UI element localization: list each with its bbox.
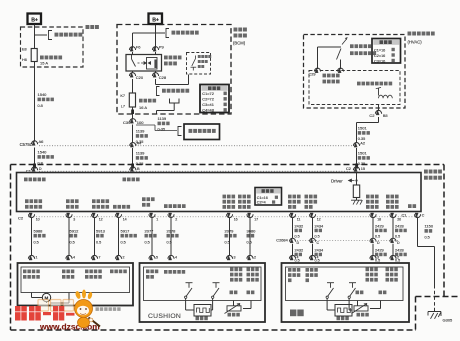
cushion box entry pin 2	[247, 255, 253, 260]
HVAC control unit enclosure (dashed)	[304, 35, 406, 109]
svg-text:2434: 2434	[315, 247, 324, 252]
svg-text:(BCM): (BCM)	[233, 41, 246, 46]
svg-text:A6: A6	[39, 139, 45, 144]
svg-text:H6: H6	[22, 58, 27, 62]
relay coil assembly	[147, 58, 158, 70]
svg-text:11: 11	[297, 217, 301, 221]
label No.2 starter relay	[164, 56, 182, 60]
svg-text:1501: 1501	[358, 151, 368, 156]
svg-text:P9: P9	[159, 45, 165, 50]
svg-text:C4=48: C4=48	[202, 108, 214, 113]
svg-text:L7: L7	[121, 105, 125, 109]
battery feed B+ terminal (left)	[28, 14, 42, 25]
svg-text:Driver: Driver	[331, 179, 343, 184]
svg-text:C1: C1	[402, 213, 407, 217]
svg-text:(HVAC): (HVAC)	[408, 40, 423, 45]
relay terminal C28	[155, 71, 157, 73]
cushion label signal	[230, 291, 238, 295]
label body control module BCM	[234, 28, 247, 32]
power distribution center box	[184, 124, 220, 140]
cushion box entry pin 3	[226, 255, 232, 260]
svg-text:10: 10	[36, 217, 40, 221]
svg-text:www.dzsc.com: www.dzsc.com	[39, 322, 100, 332]
fan box entry pin 4	[66, 255, 72, 260]
label heat pad (backrest)	[337, 317, 349, 321]
svg-text:C39: C39	[123, 120, 131, 125]
svg-text:0.5: 0.5	[295, 235, 300, 239]
svg-text:5: 5	[156, 255, 158, 259]
backrest label heat pad ground	[306, 268, 318, 272]
wire C28 to relay control	[155, 79, 157, 85]
junction blob at module entry	[33, 164, 36, 169]
splice dotted line A6-A4-A2	[39, 145, 352, 147]
seat module enclosure dashed bottom edge	[11, 329, 417, 331]
module bottom pin 14 hook col4	[115, 213, 121, 218]
module pin label col5 heat pad control	[142, 197, 155, 201]
module pin label col12 back temp sensor ground	[386, 195, 399, 199]
relay control switch	[195, 56, 197, 59]
module connector C1 pin D	[31, 167, 37, 172]
svg-text:C1=72: C1=72	[202, 91, 214, 96]
fan label col3 speed control	[85, 270, 102, 274]
label seat heater temperature control switch	[350, 44, 372, 48]
svg-text:0-35: 0-35	[158, 128, 166, 132]
fuse 11 16A	[129, 93, 135, 107]
label temperature control switch signal	[323, 74, 340, 78]
svg-text:0.5: 0.5	[395, 235, 400, 239]
cushion thermistor wires	[233, 301, 235, 306]
cushion thermistor	[227, 306, 241, 311]
svg-text:CUSHION: CUSHION	[148, 313, 181, 320]
svg-text:1540: 1540	[38, 92, 48, 97]
fuse block enclosure (dashed)	[21, 27, 84, 67]
svg-text:C2=72: C2=72	[202, 97, 214, 102]
module bottom pin 3 hook col2	[66, 213, 72, 218]
svg-text:C2684: C2684	[276, 237, 288, 242]
label battery voltage	[24, 178, 46, 182]
svg-text:0.8: 0.8	[38, 104, 43, 108]
module connector dotted line (top)	[39, 170, 350, 172]
wire 1540 RD/WH	[34, 62, 36, 142]
svg-text:16 A: 16 A	[139, 105, 147, 110]
svg-text:1540: 1540	[38, 150, 48, 155]
backrest thermal limit switch 1	[327, 282, 334, 284]
fan box entry pin 2	[115, 255, 121, 260]
wire 1501 to module	[356, 148, 358, 168]
svg-text:F6: F6	[136, 45, 141, 50]
seat fan motor box	[18, 263, 134, 306]
wire 1139 from fuse down	[132, 107, 134, 120]
cushion thermal limit switch 2	[213, 282, 220, 284]
fan box entry pin 7	[91, 255, 97, 260]
relay terminal P9	[152, 47, 158, 52]
wire back sensor signal 2429 upper segment	[372, 218, 374, 239]
svg-text:0.5: 0.5	[34, 240, 39, 244]
svg-text:4: 4	[317, 255, 319, 259]
cushion heater element	[194, 305, 211, 317]
relay terminal F6	[129, 47, 135, 52]
splice connector A4	[130, 143, 136, 148]
svg-text:1: 1	[36, 255, 38, 259]
svg-text:0.5: 0.5	[247, 240, 252, 244]
svg-text:0.5: 0.5	[70, 240, 75, 244]
module internal ground	[356, 198, 358, 201]
inline connector C2684 pin D	[390, 238, 396, 243]
svg-text:C2=4: C2=4	[257, 201, 266, 205]
inline connector C2684 pin D	[289, 238, 295, 243]
svg-text:B: B	[137, 166, 140, 171]
module pin label col4 fan speed signal	[113, 205, 130, 209]
fan box entry pin 1	[28, 255, 34, 260]
svg-text:2: 2	[397, 255, 399, 259]
svg-text:C2: C2	[369, 113, 375, 118]
relay terminal C20	[132, 71, 134, 73]
module connector table C1/C2	[255, 188, 282, 206]
cushion label ground	[247, 291, 255, 295]
backrest box entry pin 4	[309, 255, 315, 260]
svg-text:C29: C29	[309, 73, 316, 77]
module bottom connector dotted line	[28, 216, 420, 218]
svg-text:12: 12	[317, 217, 321, 221]
module bottom pin 1 hook col5	[149, 213, 155, 218]
module bottom pin 17 hook col8	[247, 213, 253, 218]
relay No.2 starter relay box	[132, 52, 134, 55]
cushion label heat pad control	[146, 270, 158, 274]
svg-text:C575L: C575L	[20, 142, 33, 147]
backrest label ground	[379, 291, 387, 295]
svg-text:K7: K7	[120, 94, 125, 98]
backrest heater box	[282, 263, 410, 322]
branch wire to relay F6	[133, 32, 156, 34]
cushion heater element wires	[185, 301, 187, 311]
cushion inner rect	[144, 267, 262, 301]
wire into module connector C1	[34, 148, 36, 169]
fan box inner rect	[21, 267, 130, 293]
svg-text:0.5: 0.5	[145, 240, 150, 244]
svg-text:1139: 1139	[136, 151, 145, 156]
label sensor	[228, 313, 240, 317]
connector C2 pin B5	[375, 110, 381, 115]
svg-text:4: 4	[297, 255, 299, 259]
wire back heat pad ground 2434 lower segment	[312, 244, 314, 256]
label seat fuse	[40, 56, 62, 60]
svg-text:0.5: 0.5	[425, 236, 430, 240]
label fuse 11 16A	[139, 99, 156, 103]
module bottom pin 2 hook col6	[168, 213, 174, 218]
svg-text:B+: B+	[152, 18, 159, 24]
relay contact	[131, 55, 133, 60]
cushion box entry pin 4	[168, 255, 174, 260]
svg-text:18: 18	[377, 217, 381, 221]
module pin label col8 cushion temp sensor ground	[238, 195, 251, 199]
svg-text:B+: B+	[31, 18, 38, 24]
svg-text:7: 7	[99, 255, 101, 259]
svg-text:15: 15	[361, 166, 365, 171]
module pin label col7 cushion temp sensor signal	[223, 195, 236, 199]
svg-text:20: 20	[397, 217, 401, 221]
svg-text:A2: A2	[360, 141, 365, 146]
svg-text:C2: C2	[18, 216, 24, 221]
fuse seat 15A	[31, 49, 37, 62]
module bottom pin 11 hook col9	[289, 213, 295, 218]
label backrest	[290, 310, 304, 317]
wire C20 to fuse 11	[132, 79, 134, 93]
svg-text:0.5: 0.5	[96, 240, 101, 244]
inline connector C2684 pin D	[370, 238, 376, 243]
wire back heat pad control 2432 lower segment	[292, 244, 294, 256]
battery feed B+ terminal (middle)	[149, 14, 163, 25]
svg-text:5988: 5988	[34, 228, 44, 233]
svg-text:C3=16: C3=16	[374, 59, 385, 63]
ground G305 symbol	[428, 312, 441, 319]
svg-text:3: 3	[73, 217, 75, 221]
splice connector A2	[353, 143, 359, 148]
module pin label col13 ground	[408, 204, 416, 208]
backrest thermal limit switch 2	[349, 282, 356, 284]
BCM enclosure (dashed)	[117, 25, 231, 115]
svg-text:2: 2	[175, 217, 177, 221]
svg-text:2434: 2434	[315, 223, 324, 228]
label ignition voltage	[123, 178, 140, 182]
label power distribution center	[55, 33, 83, 37]
backrest box entry pin 3	[370, 255, 376, 260]
svg-text:C3=41: C3=41	[202, 102, 214, 107]
backrest label temp sensor signal	[366, 268, 378, 272]
callout bracket to power distribution center	[35, 34, 48, 36]
module pin label col2 seat fan ground	[66, 199, 79, 203]
svg-text:1501: 1501	[358, 126, 368, 131]
svg-text:4: 4	[73, 255, 75, 259]
module bottom pin 18 hook col11	[370, 213, 376, 218]
svg-text:D: D	[397, 241, 400, 245]
cushion label heat pad ground	[164, 270, 185, 274]
wire back heat pad control 2432 upper segment	[292, 218, 294, 239]
link wire to power distribution center box	[136, 124, 155, 126]
svg-text:2428: 2428	[395, 247, 404, 252]
backrest box entry pin 2	[390, 255, 396, 260]
wire 1150 black to ground	[417, 218, 419, 247]
wire back sensor signal 2429 lower segment	[372, 244, 374, 256]
module connector C2 pin 15	[353, 167, 359, 172]
label seat temperature control signal	[357, 82, 392, 86]
label seat temperature control module	[424, 170, 442, 174]
wire back sensor ground 2428 upper segment	[392, 218, 394, 239]
callout bracket power distribution center (mid)	[157, 87, 160, 96]
svg-text:5913: 5913	[96, 228, 106, 233]
svg-text:C: C	[422, 213, 425, 217]
svg-text:100: 100	[137, 120, 144, 125]
svg-text:16: 16	[234, 217, 238, 221]
cushion label temp sensor signal	[230, 268, 242, 272]
backrest inner rect	[286, 267, 404, 301]
fan internal wires	[31, 293, 33, 298]
label fuse-box	[86, 25, 99, 29]
module pin label col11 back temp sensor signal	[366, 195, 379, 199]
wire 1139 down to A4	[132, 125, 134, 144]
svg-text:0.5: 0.5	[225, 240, 230, 244]
wire 1501 with jog	[378, 117, 380, 123]
module main box	[17, 173, 422, 212]
svg-text:2: 2	[254, 255, 256, 259]
module pin label col9 back heat pad control	[288, 195, 301, 199]
sensor pull-up resistor inside module	[356, 173, 358, 186]
connector C39 pin 100	[130, 119, 136, 124]
seat module enclosure dashed top edge	[11, 164, 445, 166]
cushion thermal limit switch 1	[186, 282, 193, 284]
module bottom pin 16 hook col7	[226, 213, 232, 218]
No.2 starter relay control box (dashed)	[187, 53, 211, 75]
svg-text:1150: 1150	[425, 224, 434, 229]
svg-text:D: D	[297, 241, 300, 245]
svg-text:3080: 3080	[247, 228, 257, 233]
svg-text:A4: A4	[137, 141, 143, 146]
svg-text:2428: 2428	[395, 223, 404, 228]
label relay control	[198, 55, 211, 58]
temperature control switch	[317, 47, 319, 69]
svg-text:5917: 5917	[121, 228, 131, 233]
HVAC connector table	[372, 39, 401, 64]
module pin label col1 seat fan low speed control	[25, 199, 42, 203]
wire 1139 to module	[132, 148, 134, 168]
wire back heat pad ground 2434 upper segment	[312, 218, 314, 239]
module pin label col10 back heat pad ground	[305, 195, 318, 199]
svg-text:G305: G305	[443, 318, 454, 323]
label heat pad	[196, 317, 208, 321]
svg-text:3: 3	[377, 255, 379, 259]
svg-text:C: C	[317, 241, 320, 245]
svg-text:0.5: 0.5	[375, 235, 380, 239]
wire B+ to seat fuse	[34, 25, 36, 49]
backrest thermistor wires	[357, 301, 359, 306]
svg-text:3: 3	[234, 255, 236, 259]
svg-text:14: 14	[123, 217, 127, 221]
svg-text:D: D	[39, 166, 42, 171]
connector C575L pin A6	[31, 141, 37, 146]
watermark ghost logo	[38, 300, 74, 312]
wire back sensor ground 2428 lower segment	[392, 244, 394, 256]
svg-text:17: 17	[254, 217, 258, 221]
module bottom pin 10 hook col1	[28, 213, 34, 218]
fan label col2 ground	[62, 270, 74, 274]
seat module enclosure dashed step edges	[416, 296, 460, 298]
backrest heater element wires	[326, 301, 328, 311]
label HVAC control unit	[408, 32, 435, 36]
svg-text:2432: 2432	[295, 247, 304, 252]
module bottom pin 12 hook col10	[309, 213, 315, 218]
svg-text:E8: E8	[22, 48, 27, 52]
PWM signal symbol	[378, 88, 380, 96]
seat module enclosure dashed left edge	[10, 165, 12, 331]
wires col1-col8 from module to bottom boxes	[31, 218, 33, 256]
svg-text:0.5: 0.5	[121, 240, 126, 244]
backrest label heat pad control	[288, 268, 300, 272]
svg-text:1: 1	[156, 217, 158, 221]
watermark weiku text	[0, 0, 1, 1]
fan label col1 voltage control	[23, 270, 40, 274]
wire B+ down	[155, 25, 157, 49]
adjuster arrow glyph	[342, 38, 347, 45]
module bottom pin 20 hook col12	[390, 213, 396, 218]
svg-text:C28: C28	[159, 75, 167, 80]
module pin label col3 seat fan speed set	[92, 199, 109, 203]
svg-text:B5: B5	[383, 113, 389, 118]
BCM connector table	[200, 85, 229, 113]
backrest box entry pin 4	[289, 255, 295, 260]
svg-text:5912: 5912	[70, 228, 80, 233]
module bottom pin 12 hook col3	[91, 213, 97, 218]
svg-text:1139: 1139	[136, 129, 145, 134]
svg-text:2429: 2429	[375, 223, 384, 228]
svg-text:4: 4	[175, 255, 177, 259]
callout bracket power distribution center (top)	[156, 32, 166, 34]
svg-text:2: 2	[123, 255, 125, 259]
fan label col4 speed signal	[110, 270, 127, 274]
seat module enclosure dashed right edge	[443, 165, 445, 297]
svg-text:0.5: 0.5	[315, 235, 320, 239]
HVAC inner dashed box	[309, 71, 400, 105]
svg-text:2077: 2077	[145, 228, 155, 233]
module connector C1 pin B	[130, 167, 136, 172]
label seat fan motor (below box)	[96, 307, 121, 311]
cushion label temp sensor ground	[247, 268, 259, 272]
watermark mascot	[75, 290, 101, 328]
svg-text:2429: 2429	[375, 247, 384, 252]
svg-text:C2: C2	[346, 166, 351, 171]
inline connector C2684 dotted line and label	[289, 239, 398, 241]
fan motor symbol M	[42, 293, 50, 301]
module bottom pin C hook col13	[414, 213, 420, 218]
module pin label col6 heat pad ground	[164, 204, 186, 208]
backrest heater element	[335, 305, 352, 317]
svg-text:12: 12	[99, 217, 103, 221]
backrest label temp sensor ground	[386, 268, 398, 272]
svg-text:C20: C20	[136, 75, 144, 80]
svg-text:C1=16: C1=16	[257, 196, 268, 200]
svg-text:1139: 1139	[158, 116, 167, 121]
cushion box entry pin 5	[149, 255, 155, 260]
inline connector C2684 pin C	[309, 238, 315, 243]
svg-text:D: D	[377, 241, 380, 245]
cushion heater box	[140, 263, 266, 322]
wire to HVAC connector C2	[378, 105, 380, 112]
backrest thermistor	[354, 306, 368, 311]
svg-text:15 A: 15 A	[40, 61, 48, 66]
label sensor (backrest)	[357, 313, 369, 317]
backrest label signal	[356, 291, 364, 295]
svg-text:2432: 2432	[295, 223, 304, 228]
splice-pack symbol	[170, 99, 180, 104]
